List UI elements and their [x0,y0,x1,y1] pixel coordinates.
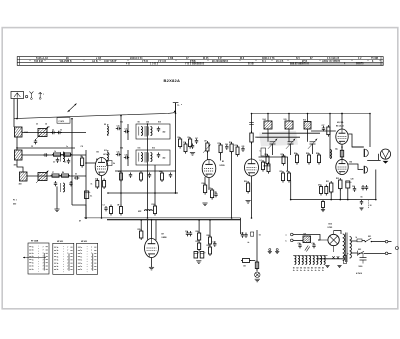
resistor R40 on pilot line [255,260,258,271]
wire hline y199 [291,199,376,201]
dial scale tick marks [30,60,380,61]
dial scale text row 2 [34,60,374,63]
IF1 secondary coil [148,127,152,136]
svg-text:1a: 1a [80,253,82,255]
resistor R45 below rail [322,200,325,210]
svg-text:1 8 B: 1 8 B [142,61,148,63]
ground terminal 1 [268,249,272,254]
resistor R30 [335,148,344,159]
svg-text:B1: B1 [97,151,99,153]
svg-text:R27: R27 [306,153,309,155]
wire C5 to ground [56,186,58,209]
wire x290 down [290,181,292,200]
svg-text:B 4: B 4 [262,60,266,63]
wire x155 vertical [154,165,156,206]
heater chain [293,256,325,269]
svg-text:R26: R26 [294,153,297,155]
wire vertical x121 [120,116,122,193]
svg-text:UY85: UY85 [328,227,333,229]
wire x86 vertical [85,150,87,218]
svg-text:20,4 B: 20,4 B [276,60,284,63]
coil S14 oscillator [264,121,272,129]
svg-text:N 5: N 5 [296,58,300,60]
wire terminal b [293,239,303,241]
svg-text:1a: 1a [57,250,59,252]
coil S15 oscillator [285,121,293,129]
capacitor C6 [74,176,79,179]
wire into output grid [311,130,336,132]
resistor R6b under mixer [103,179,106,190]
label row IF2 [120,147,155,150]
svg-text:C22: C22 [214,192,217,194]
resistor R27 [308,153,311,165]
wire pot to tube grid [207,152,209,160]
svg-text:25: 25 [36,124,38,126]
wire x370 B+ down [369,114,371,148]
svg-text:R15: R15 [218,143,221,145]
svg-text:F1 1: F1 1 [13,200,17,202]
capacitor C42 [169,173,172,178]
wire under B2 screen [208,178,210,191]
wire antenna leads down [14,99,17,128]
svg-text:B10: B10 [329,224,332,226]
wire rect top to transformer [334,231,341,235]
wire osc top line [252,113,371,115]
svg-text:C20: C20 [225,144,228,146]
ground heater 2 [337,266,341,268]
svg-text:C2: C2 [48,127,50,129]
cluster C19 R13 [183,142,194,154]
svg-text:1a: 1a [32,266,34,268]
svg-text:1a: 1a [80,269,82,271]
svg-text:1k: 1k [54,151,56,153]
svg-text:0,1: 0,1 [260,160,262,162]
svg-text:C9: C9 [81,146,83,148]
svg-text:7: 7 [43,269,44,271]
svg-text:B8: B8 [318,267,320,269]
IF2 secondary coil [148,153,152,162]
wire outputs down [331,188,348,200]
dial scale line 2 [17,61,383,63]
svg-text:B2X82A: B2X82A [164,78,181,83]
wire r22 to x290 [289,180,291,182]
svg-text:RF 344B: RF 344B [31,240,39,243]
IF2 capacitor [157,153,160,158]
svg-text:C7: C7 [52,172,54,174]
ground under C32 C33 [196,261,201,264]
svg-text:7: 7 [43,266,44,268]
wire driver link horizontal [367,159,380,161]
tuning capacitor C26 with arrow [308,139,317,149]
wire R35 to bus [140,220,142,231]
coil S17 cathode [330,150,332,159]
svg-text:452: 452 [163,157,166,160]
IF1 core lines [145,126,146,137]
svg-text:F: F [348,254,349,256]
wire B6 anode to driver [348,164,363,170]
svg-text:R8: R8 [178,137,180,139]
capacitor C21 [241,147,244,152]
wire R36 to bus [198,220,200,233]
svg-text:795 648: 795 648 [34,60,44,63]
svg-text:B7: B7 [162,234,164,236]
svg-text:1a: 1a [57,266,59,268]
wire row2 horizontal [17,147,75,149]
ground under R45 [321,210,325,212]
resistor R17 [236,145,239,157]
svg-text:B9: B9 [322,267,324,269]
svg-text:C11: C11 [125,129,128,131]
resistor R12 [154,204,157,216]
earth connector symbol [39,92,45,99]
wire terminal a [293,235,320,241]
wire under B2 [204,177,206,185]
coil S1 aerial [15,127,23,137]
wire speaker drop [378,154,380,161]
svg-text:SK1: SK1 [368,236,371,238]
tube B1 UCH81 mixer [95,158,108,176]
capacitor C4 [56,158,59,163]
capacitor C27 [322,126,325,131]
svg-text:C12: C12 [120,122,123,124]
svg-text:500: 500 [13,204,16,206]
svg-text:25p: 25p [335,148,338,150]
wire mixer cathode down [101,176,103,219]
svg-text:S12: S12 [152,148,155,150]
svg-text:70: 70 [60,130,62,132]
svg-text:4.784 6: 4.784 6 [356,272,362,275]
coil S13 trimmer [107,150,108,162]
antenna terminal circle [25,95,27,97]
mains switch bottom [358,251,386,256]
antenna terminal box [11,92,24,99]
svg-text:R17: R17 [235,145,238,147]
svg-text:0,1: 0,1 [64,162,66,164]
AVC line [108,192,178,194]
svg-text:50: 50 [370,205,372,207]
IF1 primary coil [139,127,143,136]
svg-text:1a: 1a [32,247,34,249]
wire vertical x147 [147,124,149,218]
bus left terminal [79,217,87,222]
svg-text:MF: MF [304,234,306,236]
svg-text:C31: C31 [185,231,188,233]
resistor R33 [320,185,323,196]
value labels scattered [48,104,372,256]
ground under C19 [190,153,195,156]
terminal a [286,233,294,237]
fuse [357,239,362,242]
resistor R1 [52,153,62,156]
wire pilot vertical [256,230,258,272]
capacitor C16 [124,156,129,159]
wire mixer grid left [86,162,95,164]
wire row3 horizontal [27,175,86,177]
resistor R23 osc grid leak [250,131,258,144]
svg-text:7: 7 [43,256,44,258]
electrolytic C37 diagonal [305,246,310,252]
svg-text:1a: 1a [80,250,82,252]
wire avc drop x121 [120,193,122,206]
junction dot arrow base [68,110,70,112]
ground under pilot lamp [255,279,260,282]
wire osc grid vertical [251,114,253,134]
resistor R26 [296,153,299,165]
svg-text:S9: S9 [138,122,140,124]
svg-text:25: 25 [52,130,54,132]
coil S3 [20,172,28,181]
svg-text:7: 7 [43,250,44,252]
svg-text:383: 383 [19,184,22,186]
svg-text:1607 SB B: 1607 SB B [104,61,116,63]
capacitor C45 [69,181,72,186]
wire output anode top [341,114,343,130]
tube B3 UBC81 detector [245,159,259,176]
ground under C46 [359,208,363,210]
svg-text:S10: S10 [158,122,161,124]
svg-text:UF89: UF89 [220,165,226,167]
capacitor C5 [54,181,57,186]
svg-text:0,1: 0,1 [90,196,92,198]
svg-text:5000: 5000 [359,266,363,268]
svg-text:56: 56 [361,197,363,199]
switch unit box RF 344B [28,240,49,275]
coil S4 variable with arrow [36,127,49,140]
tube B5 UL84 output [336,129,348,144]
dial scale left bracket [19,57,21,66]
resistor R44 [159,171,164,182]
svg-text:MF 452: MF 452 [57,240,63,243]
transformer bottom line [318,258,343,260]
coil S16 oscillator [304,122,311,130]
svg-text:7: 7 [43,259,44,261]
svg-text:1a: 1a [32,256,34,258]
svg-text:B6: B6 [350,162,352,164]
svg-text:C16: C16 [125,155,128,157]
electrolytic C32 [194,252,200,259]
svg-text:SK2: SK2 [358,249,361,251]
svg-text:C36: C36 [298,243,301,245]
svg-text:5k: 5k [113,163,115,165]
IF2 primary coil [139,153,143,162]
tuning arrow [68,104,77,113]
svg-text:UM80: UM80 [162,237,167,239]
resistor R36 [198,231,201,242]
mains terminal bottom [385,252,388,255]
svg-text:1a: 1a [57,269,59,271]
svg-text:4 B: 4 B [126,63,130,66]
svg-text:1a: 1a [57,260,59,262]
mains terminal top [385,240,388,243]
resistor R18 under B2 [204,183,207,195]
svg-text:B2: B2 [222,161,224,163]
capacitor C11 [124,130,129,133]
capacitor C30 pair [361,185,369,199]
svg-text:R25: R25 [281,154,284,156]
label row IF1 [120,122,161,124]
svg-text:8 P: 8 P [218,58,222,60]
svg-text:1a: 1a [57,247,59,249]
wire row2b [22,154,86,156]
resistor R42 [118,170,123,182]
capacitor C40 [129,173,132,178]
svg-text:7: 7 [43,263,44,265]
ground heater 1 [325,266,329,268]
wire row1 horizontal [22,132,86,134]
wire main tuning line [14,103,176,119]
svg-text:29044 6 54: 29044 6 54 [130,57,143,60]
svg-text:50: 50 [259,235,261,237]
resistor R28 [318,153,321,165]
resistor R4 [60,174,70,177]
volume potentiometer R14 [203,141,210,154]
coil S6 left of mixer [61,152,65,162]
resistor R2 [62,153,72,156]
resistor R5 [81,156,84,168]
coil S7 left of mixer [61,183,65,192]
resistor R41 horizontal [241,259,251,268]
capacitor C2 [51,131,56,134]
svg-text:R36: R36 [196,231,199,233]
junction output anode [341,113,343,115]
svg-text:50: 50 [75,174,77,176]
svg-text:1a: 1a [80,260,82,262]
wire R41 to pilot line [250,260,256,262]
svg-text:98 200490M R: 98 200490M R [212,60,229,63]
wire S2 to S3 [17,160,23,172]
svg-text:R12: R12 [152,204,155,206]
wire B5 to B6 [341,144,343,159]
resistor R24 [266,154,269,166]
electrolytic C28 [346,181,352,188]
svg-text:x 1B: x 1B [96,58,101,60]
mains switch top [362,238,385,242]
svg-text:B5 UL84: B5 UL84 [336,125,345,128]
svg-text:B2: B2 [297,267,299,269]
svg-text:1 5 B 2: 1 5 B 2 [150,64,159,66]
svg-text:SRF: SRF [138,211,141,213]
svg-text:588 57 980570 K: 588 57 980570 K [290,64,309,66]
wire coil bottoms to tuning caps [268,129,313,155]
resistor R7 right of mixer [107,161,115,166]
wires to plug [388,242,392,254]
resistor R15 [219,143,222,155]
thermal fuse box [344,256,347,264]
junction dot on tuning line [174,111,176,113]
resistor R3 [51,174,61,177]
resistor R39 [209,245,212,256]
wire mains top [351,240,358,242]
capacitor C39 mains [359,253,367,267]
svg-text:S11: S11 [138,148,141,150]
svg-text:5BB75: 5BB75 [356,64,364,66]
resistor R10 on AVC [110,205,113,216]
svg-text:1a: 1a [32,259,34,261]
dashed link [368,200,370,209]
svg-text:R9: R9 [188,137,190,139]
resistor R46 detector [262,160,265,172]
svg-text:C5: C5 [31,146,33,148]
svg-text:R18: R18 [202,183,205,185]
wire osc mid line 1 [262,132,320,134]
resistor R47 detector [267,162,270,174]
note text block [13,200,17,206]
capacitor C41 [148,173,151,178]
loudspeaker [380,149,390,159]
svg-text:R20: R20 [244,181,247,183]
svg-text:452: 452 [163,131,166,134]
coil S8 trimmer [107,124,108,136]
svg-text:S14: S14 [263,118,266,121]
svg-text:B6: B6 [311,267,313,269]
capacitor C17 [195,139,198,144]
resistor R20 under B3 [247,181,250,194]
svg-text:A2 B: A2 B [92,60,98,63]
wire vertical x231 [231,152,233,218]
wire S1 to S2 [16,137,18,150]
svg-text:B1: B1 [293,267,295,269]
resistor R37 [198,241,201,252]
capacitor C44 [43,153,48,156]
chassis bus heavy [107,219,241,221]
electrolytic C7 [85,191,92,199]
resistor R9 [189,137,192,149]
label UCH81 [97,151,111,156]
capacitor C46 below rail [360,200,363,205]
resistor R35 [140,229,143,240]
svg-text:C38: C38 [312,243,315,245]
terminal TL top tick [173,102,179,104]
svg-text:B 5B: B 5B [248,64,254,66]
capacitor C31 pair [186,231,192,236]
wire mains bottom [351,252,358,254]
capacitor C29 [353,187,356,192]
wire long vertical x175 [175,103,177,193]
resistor R29 [327,125,330,137]
svg-text:C28: C28 [351,179,354,181]
svg-text:R31: R31 [326,181,329,183]
driver unit lower [364,166,367,174]
aerial symbol [29,91,33,99]
svg-text:1a: 1a [80,247,82,249]
resistor R43 [140,171,143,182]
wire x175 join [175,192,177,194]
svg-text:LBB2 45 5B17B: LBB2 45 5B17B [322,60,341,63]
dial scale line 1 [17,59,383,61]
wire x330 vertical [329,114,331,159]
dial cord shading [259,131,298,147]
svg-text:S8: S8 [104,124,106,126]
svg-text:MF 452: MF 452 [81,240,87,243]
svg-text:381: 381 [14,165,17,167]
capacitor C43 [34,139,37,144]
IF2 core lines [145,152,146,163]
svg-text:50k: 50k [286,171,289,173]
svg-text:1a: 1a [80,256,82,258]
padder box [261,148,266,156]
wire osc mid line 2 [257,136,300,138]
svg-text:C29: C29 [352,186,355,188]
IF1 capacitor [157,127,160,132]
svg-text:4 B8: 4 B8 [168,57,174,60]
resistor R21 [282,171,285,183]
resistor R22 [288,171,291,183]
capacitor C47 [67,159,70,164]
bus end vertical [240,218,242,234]
svg-text:5126+1,18: 5126+1,18 [36,58,48,60]
cross marks [332,256,339,259]
svg-text:1 2 3 B: 1 2 3 B [158,61,166,63]
